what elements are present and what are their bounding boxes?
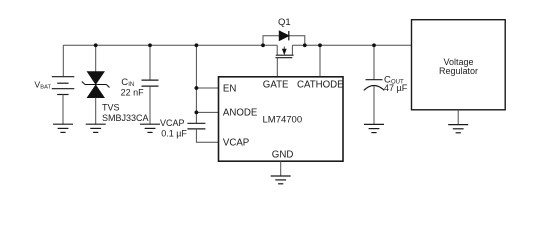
svg-text:22 nF: 22 nF: [121, 88, 145, 98]
ground (C_OUT): [364, 124, 384, 132]
svg-text:47 µF: 47 µF: [384, 83, 408, 93]
wire: main top rail right segment (Q1 source to regulator): [292, 44, 411, 46]
svg-text:ANODE: ANODE: [223, 108, 258, 119]
wire: VCAP cap to VCAP pin: [196, 129, 218, 142]
battery V_BAT: [52, 77, 75, 95]
capacitor C_OUT 47uF (polarized): [364, 80, 384, 91]
svg-text:SMBJ33CA: SMBJ33CA: [102, 113, 149, 123]
wire: battery top lead: [62, 45, 64, 76]
Q1 body arrow head: [282, 49, 287, 55]
node: EN junction: [195, 86, 199, 90]
ground (TVS): [86, 124, 106, 132]
diode of Q1: [279, 31, 289, 40]
TVS diode SMBJ33CA (bidirectional): [82, 72, 110, 98]
wire: C_OUT bottom lead: [373, 86, 375, 125]
node: C_OUT/rail: [372, 43, 376, 47]
svg-text:VCAP: VCAP: [160, 118, 185, 128]
svg-text:LM74700: LM74700: [263, 114, 303, 125]
svg-text:GND: GND: [272, 150, 294, 161]
wire: EN pin wire: [196, 87, 218, 89]
wire: battery bottom lead: [62, 95, 64, 125]
IC U1 LM74700 box: [219, 77, 344, 161]
wire: regulator ground lead: [457, 110, 459, 125]
ground (regulator): [448, 125, 468, 133]
node: CATHODE/rail: [318, 43, 322, 47]
svg-text:CATHODE: CATHODE: [297, 79, 344, 90]
svg-text:TVS: TVS: [102, 102, 120, 112]
node: diode loop right: [303, 43, 307, 47]
wire: main top rail left segment (battery to Q1 drain): [63, 44, 277, 46]
wire: EN/ANODE vertical branch: [195, 45, 197, 123]
wire: GND pin lead: [280, 161, 282, 176]
junction dots: [94, 43, 376, 114]
svg-text:0.1 µF: 0.1 µF: [161, 128, 187, 138]
transistor Q1 MOSFET: [277, 45, 292, 55]
svg-text:C: C: [121, 77, 128, 88]
wire: TVS bottom lead: [95, 98, 97, 125]
node: diode loop left: [261, 43, 265, 47]
wire: C_IN bottom lead: [149, 86, 151, 124]
wire: ANODE pin wire: [196, 111, 218, 113]
svg-text:Regulator: Regulator: [439, 66, 478, 76]
ground (battery): [53, 124, 73, 132]
svg-text:BAT: BAT: [40, 84, 51, 90]
wire: gate lead to GATE pin: [276, 58, 278, 77]
Voltage Regulator box: [412, 20, 506, 110]
diode loop wire (Q1 body diode): [263, 36, 305, 46]
svg-text:Q1: Q1: [278, 17, 291, 28]
wire: C_IN top lead: [149, 45, 151, 80]
node: EN branch/rail: [195, 43, 199, 47]
svg-text:EN: EN: [223, 83, 236, 94]
svg-text:VCAP: VCAP: [223, 138, 249, 149]
wire: TVS top lead: [95, 45, 97, 72]
node: C_IN/rail: [148, 43, 152, 47]
wire: C_OUT top lead: [373, 45, 375, 79]
capacitor C_IN 22nF: [142, 80, 159, 86]
svg-text:GATE: GATE: [263, 79, 289, 90]
node: ANODE junction: [195, 111, 199, 115]
node: TVS/rail: [94, 43, 98, 47]
capacitor VCAP 0.1uF: [187, 123, 205, 129]
ground (C_IN): [140, 124, 160, 132]
wire: CATHODE lead: [319, 45, 321, 77]
ground (IC GND): [271, 176, 291, 184]
